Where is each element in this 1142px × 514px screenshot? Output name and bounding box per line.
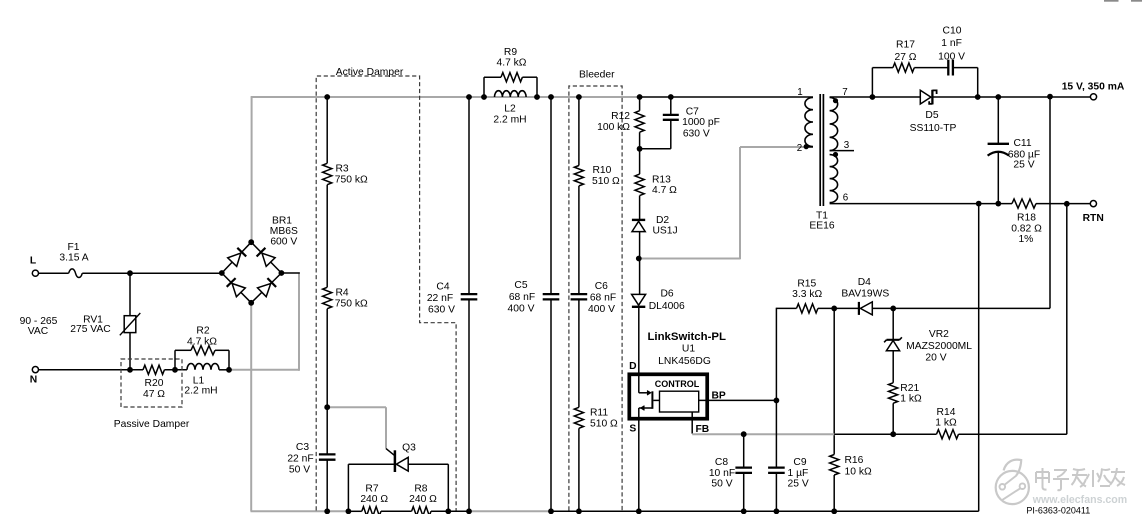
top rail gray bbox=[251, 96, 640, 98]
wire FB stub bbox=[692, 412, 709, 435]
svg-text:LNK456DG: LNK456DG bbox=[658, 356, 711, 367]
svg-text:C3: C3 bbox=[296, 442, 309, 453]
node D2/D6/pin2 bbox=[636, 256, 642, 262]
node C4 top bbox=[466, 94, 472, 100]
wire Q3 loop left bbox=[347, 464, 349, 511]
svg-text:R16: R16 bbox=[845, 455, 864, 466]
svg-text:240 Ω: 240 Ω bbox=[360, 494, 388, 505]
varistor RV1 bbox=[70, 273, 140, 370]
svg-text:C7: C7 bbox=[686, 107, 699, 118]
svg-text:3: 3 bbox=[844, 140, 850, 151]
diode D5 bbox=[910, 90, 957, 134]
svg-text:10 nF: 10 nF bbox=[709, 468, 735, 479]
resistor R14 bbox=[935, 407, 958, 439]
wire node to fb tap bbox=[893, 307, 1050, 309]
label Bleeder bbox=[579, 69, 615, 80]
node C9 bottom bbox=[774, 508, 780, 514]
resistor R17 bbox=[893, 40, 917, 73]
wire sec return down bbox=[978, 204, 980, 512]
wire R16 to rail bbox=[833, 475, 835, 511]
svg-text:1%: 1% bbox=[1018, 234, 1033, 245]
svg-text:1 µF: 1 µF bbox=[788, 468, 809, 479]
svg-text:100 V: 100 V bbox=[938, 51, 965, 62]
svg-text:275 VAC: 275 VAC bbox=[70, 324, 111, 335]
node Q3 right bbox=[445, 508, 451, 514]
node C8 bottom bbox=[741, 508, 747, 514]
svg-text:1 kΩ: 1 kΩ bbox=[900, 394, 922, 405]
diode D2 bbox=[632, 215, 678, 237]
svg-text:Passive Damper: Passive Damper bbox=[114, 419, 190, 430]
wire pin7 to D5 bbox=[830, 96, 921, 98]
svg-text:R3: R3 bbox=[336, 164, 349, 175]
resistor R10 bbox=[574, 165, 620, 187]
bottom rail gray 1 bbox=[251, 510, 349, 512]
terminal L bbox=[30, 256, 39, 277]
svg-text:R14: R14 bbox=[937, 407, 956, 418]
resistor R11 bbox=[574, 407, 618, 429]
svg-text:VAC: VAC bbox=[28, 326, 49, 337]
wire R18 to RTN bbox=[1036, 203, 1090, 205]
node R21/FB bbox=[890, 431, 896, 437]
svg-text:RTN: RTN bbox=[1083, 213, 1104, 224]
terminal N bbox=[30, 367, 39, 386]
svg-text:PI-6363-020411: PI-6363-020411 bbox=[1026, 506, 1090, 514]
node R15/D4 bbox=[831, 306, 837, 312]
label S pin bbox=[629, 424, 636, 435]
capacitor C10 bbox=[938, 25, 965, 75]
node S bottom bbox=[636, 508, 642, 514]
wire bridge E stub bbox=[281, 272, 299, 274]
resistor R9 bypass bbox=[484, 47, 537, 97]
svg-text:CONTROL: CONTROL bbox=[655, 379, 700, 389]
bridge nodes bbox=[219, 239, 284, 305]
svg-text:4.7 kΩ: 4.7 kΩ bbox=[187, 337, 217, 348]
svg-text:Active Damper: Active Damper bbox=[336, 67, 404, 78]
node fb tap top bbox=[1047, 94, 1053, 100]
capacitor C6 bbox=[571, 281, 617, 315]
wire damper to bridge E bbox=[219, 272, 299, 370]
svg-text:R9: R9 bbox=[504, 47, 517, 58]
watermark logo bbox=[996, 460, 1029, 504]
svg-text:F1: F1 bbox=[67, 242, 79, 253]
resistor R12 bbox=[597, 111, 644, 133]
capacitor C9 bbox=[768, 400, 809, 511]
resistor R7 bbox=[360, 483, 388, 514]
top rail black bbox=[640, 96, 813, 98]
label PI number bbox=[1026, 506, 1090, 514]
svg-text:C4: C4 bbox=[436, 282, 449, 293]
node C5 bottom bbox=[548, 508, 554, 514]
svg-text:C8: C8 bbox=[715, 457, 728, 468]
node R12 top bbox=[637, 94, 643, 100]
svg-text:0.82 Ω: 0.82 Ω bbox=[1011, 223, 1042, 234]
inductor L1 bbox=[184, 363, 219, 396]
svg-text:R17: R17 bbox=[896, 40, 915, 51]
wire R3 to R4 bbox=[326, 185, 328, 288]
label Active Damper bbox=[336, 67, 404, 78]
node C5 top bbox=[548, 94, 554, 100]
wire R11 to rail bbox=[578, 428, 580, 511]
label BR1 bbox=[270, 216, 298, 248]
resistor R4 bbox=[323, 287, 368, 309]
node C11 top bbox=[995, 94, 1001, 100]
svg-text:3.3 kΩ: 3.3 kΩ bbox=[792, 289, 822, 300]
bottom rail black 2 bbox=[551, 510, 979, 512]
wire C6 to R11 bbox=[578, 299, 580, 407]
svg-text:27 Ω: 27 Ω bbox=[894, 52, 916, 63]
diode D4 bbox=[841, 277, 889, 315]
capacitor C5 bbox=[508, 97, 560, 511]
snubber loop bbox=[872, 68, 977, 97]
label pin2 bbox=[797, 143, 802, 154]
node C8 top bbox=[741, 431, 747, 437]
svg-text:2: 2 bbox=[797, 143, 802, 154]
svg-text:400 V: 400 V bbox=[588, 304, 615, 315]
label pin6 bbox=[843, 193, 849, 204]
svg-text:C9: C9 bbox=[793, 457, 806, 468]
core bbox=[820, 94, 823, 206]
resistor R2 bypass bbox=[175, 326, 229, 370]
wire FB row black bbox=[834, 433, 936, 435]
wire L to fuse bbox=[38, 272, 68, 274]
capacitor C8 bbox=[709, 434, 752, 511]
svg-text:2.2 mH: 2.2 mH bbox=[493, 115, 526, 126]
svg-text:R20: R20 bbox=[145, 378, 164, 389]
svg-text:VR2: VR2 bbox=[929, 329, 949, 340]
wire clamp to pin2 gray bbox=[640, 147, 804, 259]
svg-text:630 V: 630 V bbox=[683, 129, 710, 140]
svg-text:R12: R12 bbox=[611, 111, 630, 122]
svg-text:15 V, 350 mA: 15 V, 350 mA bbox=[1062, 82, 1125, 93]
wire fb row left bbox=[776, 308, 796, 401]
wire pin2 stub bbox=[804, 146, 813, 148]
phase dot primary bbox=[804, 144, 809, 149]
bleeder box bbox=[569, 86, 622, 511]
node BP/C9 bbox=[774, 398, 780, 404]
svg-text:4.7 kΩ: 4.7 kΩ bbox=[496, 58, 526, 69]
wire R13 to D2 bbox=[639, 196, 641, 219]
wire fuse to node bbox=[82, 272, 130, 274]
top edge marks bbox=[1104, 0, 1142, 2]
svg-text:BAV19WS: BAV19WS bbox=[841, 289, 889, 300]
svg-text:N: N bbox=[30, 375, 37, 386]
svg-text:68 nF: 68 nF bbox=[509, 292, 535, 303]
wire fb tap down bbox=[1049, 97, 1051, 309]
terminal 15V bbox=[1062, 82, 1125, 100]
svg-text:R7: R7 bbox=[365, 483, 378, 494]
node sec return bbox=[976, 201, 982, 207]
resistor R13 bbox=[635, 174, 677, 196]
svg-text:1 nF: 1 nF bbox=[941, 38, 962, 49]
svg-text:R21: R21 bbox=[900, 383, 919, 394]
wire R4 to C3 bbox=[326, 309, 328, 455]
watermark brand text bbox=[1036, 468, 1125, 490]
wire Q3 right bbox=[408, 463, 448, 465]
node R2 left bbox=[172, 367, 178, 373]
capacitor C11 bbox=[988, 97, 1041, 204]
phase dot sec upper bbox=[833, 98, 838, 103]
svg-text:U1: U1 bbox=[682, 344, 695, 355]
svg-text:22 nF: 22 nF bbox=[427, 293, 453, 304]
wire R21 to FB row bbox=[892, 403, 894, 434]
svg-text:EE16: EE16 bbox=[809, 221, 834, 232]
svg-text:400 V: 400 V bbox=[508, 304, 535, 315]
label pin7 bbox=[842, 87, 847, 98]
svg-text:C10: C10 bbox=[943, 25, 962, 36]
svg-text:1: 1 bbox=[797, 87, 802, 98]
svg-text:BR1: BR1 bbox=[272, 216, 292, 227]
svg-text:630 V: 630 V bbox=[428, 304, 455, 315]
svg-text:C6: C6 bbox=[595, 281, 608, 292]
wire R15 to D4 bbox=[818, 307, 859, 309]
wire node to R13 bbox=[639, 149, 641, 174]
svg-text:10 kΩ: 10 kΩ bbox=[845, 466, 872, 477]
node bleeder top bbox=[576, 94, 582, 100]
wire R12 to node bbox=[639, 132, 641, 149]
terminal RTN bbox=[1083, 201, 1104, 224]
svg-text:R2: R2 bbox=[196, 326, 209, 337]
node gate tap bbox=[324, 404, 330, 410]
label T1 bbox=[809, 211, 834, 232]
wire RTN branch down bbox=[1066, 204, 1068, 434]
svg-text:LinkSwitch-PL: LinkSwitch-PL bbox=[647, 331, 726, 343]
wire Q3 loop right bbox=[447, 464, 449, 511]
svg-text:D4: D4 bbox=[858, 277, 871, 288]
svg-text:22 nF: 22 nF bbox=[287, 453, 313, 464]
svg-text:510 Ω: 510 Ω bbox=[592, 176, 620, 187]
wire rail to R3 bbox=[326, 97, 328, 163]
wire pin3 tap bbox=[830, 150, 854, 152]
inductor L2 bbox=[493, 91, 526, 126]
node bleeder bottom bbox=[576, 508, 582, 514]
svg-text:R8: R8 bbox=[414, 483, 427, 494]
thyristor Q3 bbox=[395, 443, 416, 473]
svg-text:6: 6 bbox=[843, 193, 849, 204]
bridge diode W-N bbox=[228, 248, 247, 267]
capacitor C7 bbox=[640, 97, 720, 149]
svg-text:50 V: 50 V bbox=[711, 479, 732, 490]
U1 box bbox=[629, 374, 707, 418]
wire rail to R10 bbox=[578, 97, 580, 166]
node C3 bottom bbox=[324, 508, 330, 514]
label pin3 bbox=[844, 140, 850, 151]
svg-text:www.elecfans.com: www.elecfans.com bbox=[1032, 494, 1127, 506]
wire rail to R12 bbox=[639, 97, 641, 111]
wire R16 branch bbox=[833, 308, 835, 454]
wire Q3 left bbox=[348, 463, 394, 465]
bottom rail gray 2 bbox=[469, 510, 552, 512]
passive damper box bbox=[121, 359, 182, 407]
svg-text:R4: R4 bbox=[336, 288, 349, 299]
svg-text:510 Ω: 510 Ω bbox=[590, 418, 618, 429]
svg-text:100 kΩ: 100 kΩ bbox=[597, 122, 630, 133]
U1 control block bbox=[653, 379, 699, 412]
label pin1 bbox=[797, 87, 802, 98]
svg-text:R18: R18 bbox=[1017, 212, 1036, 223]
node D4/VR2 bbox=[890, 306, 896, 312]
wire D6 to U1 D bbox=[638, 307, 640, 373]
svg-text:2.2 mH: 2.2 mH bbox=[184, 386, 217, 397]
resistor R8 bbox=[409, 483, 437, 514]
svg-text:750 kΩ: 750 kΩ bbox=[335, 174, 368, 185]
wire gate kink bbox=[386, 449, 394, 456]
secondary winding lower bbox=[830, 155, 838, 203]
U1 mosfet bbox=[639, 373, 653, 421]
wire node to D6 bbox=[639, 259, 641, 295]
node C7 top bbox=[668, 94, 674, 100]
svg-text:MB6S: MB6S bbox=[270, 226, 298, 237]
bridge diode E-N bbox=[257, 248, 276, 267]
wire BP bbox=[699, 391, 777, 402]
watermark url bbox=[1032, 494, 1127, 506]
wire D2 to node bbox=[639, 232, 641, 259]
node RTN branch bbox=[1064, 201, 1070, 207]
node snubber right bbox=[975, 94, 981, 100]
secondary winding upper bbox=[830, 97, 838, 150]
wire D5 to output bbox=[934, 96, 1091, 98]
node RV1/N bbox=[127, 367, 133, 373]
node R9 left bbox=[481, 94, 487, 100]
svg-text:750 kΩ: 750 kΩ bbox=[335, 298, 368, 309]
node R12/C7 bbox=[637, 146, 643, 152]
bridge BR1 frame bbox=[222, 242, 282, 303]
capacitor C4 bbox=[427, 97, 477, 511]
wire pin6 row bbox=[830, 203, 1012, 205]
bottom rail black R7R8 seg bbox=[348, 510, 468, 512]
svg-text:SS110-TP: SS110-TP bbox=[910, 123, 957, 134]
wire N to R20 bbox=[38, 369, 143, 371]
wire R14 to corner bbox=[959, 433, 1067, 435]
wire VR2 to R21 bbox=[892, 351, 894, 383]
node R16 bottom bbox=[831, 508, 837, 514]
zener VR2 bbox=[884, 308, 972, 363]
svg-text:47 Ω: 47 Ω bbox=[143, 389, 165, 400]
phase dot sec lower bbox=[833, 152, 838, 157]
svg-text:D2: D2 bbox=[656, 215, 669, 226]
svg-text:L2: L2 bbox=[504, 104, 516, 115]
wire FB row gray bbox=[692, 433, 835, 435]
svg-text:1 kΩ: 1 kΩ bbox=[935, 418, 957, 429]
resistor R20 bbox=[143, 365, 165, 400]
bridge diode S-E bbox=[258, 278, 277, 297]
wire R10 to C6 bbox=[578, 186, 580, 294]
node C4 bottom bbox=[466, 508, 472, 514]
diode D6 bbox=[632, 289, 685, 312]
svg-text:50 V: 50 V bbox=[289, 465, 310, 476]
svg-text:D5: D5 bbox=[925, 110, 938, 121]
svg-text:BP: BP bbox=[712, 391, 726, 402]
svg-text:D: D bbox=[629, 361, 636, 372]
svg-text:Q3: Q3 bbox=[402, 443, 416, 454]
wire D4 to node bbox=[872, 307, 893, 309]
label LinkSwitch-PL bbox=[647, 331, 726, 367]
fuse F1 bbox=[59, 242, 88, 278]
node C11 bottom bbox=[995, 201, 1001, 207]
wire R20 to L1 bbox=[164, 369, 187, 371]
node R9 right bbox=[534, 94, 540, 100]
capacitor C3 bbox=[287, 442, 335, 511]
label D pin bbox=[629, 361, 636, 372]
node Q3 left bbox=[346, 508, 352, 514]
svg-text:240 Ω: 240 Ω bbox=[409, 494, 437, 505]
wire gate gray bbox=[327, 407, 386, 448]
primary winding bbox=[805, 97, 813, 146]
svg-text:R10: R10 bbox=[593, 165, 612, 176]
resistor R3 bbox=[323, 163, 368, 185]
svg-text:US1J: US1J bbox=[653, 226, 678, 237]
svg-text:D6: D6 bbox=[661, 289, 674, 300]
svg-text:4.7 Ω: 4.7 Ω bbox=[652, 185, 677, 196]
wire node to bridge W bbox=[130, 272, 222, 274]
svg-text:R13: R13 bbox=[652, 174, 671, 185]
svg-text:25 V: 25 V bbox=[788, 479, 809, 490]
label input voltage bbox=[20, 316, 58, 337]
wire bridge S to bottom rail bbox=[250, 303, 252, 512]
resistor R18 bbox=[1011, 199, 1042, 245]
svg-text:1000 pF: 1000 pF bbox=[682, 117, 720, 128]
wire S to rail bbox=[638, 419, 640, 512]
resistor R16 bbox=[830, 455, 872, 478]
node snubber left bbox=[870, 94, 876, 100]
node F1/RV1 bbox=[127, 270, 133, 276]
svg-text:C11: C11 bbox=[1013, 138, 1031, 149]
bridge diode S-W bbox=[227, 278, 246, 297]
svg-text:C5: C5 bbox=[514, 280, 527, 291]
node L1/R2 right bbox=[226, 367, 232, 373]
svg-text:Bleeder: Bleeder bbox=[579, 69, 615, 80]
svg-text:25 V: 25 V bbox=[1013, 159, 1034, 170]
svg-text:DL4006: DL4006 bbox=[649, 301, 685, 312]
svg-text:S: S bbox=[629, 424, 636, 435]
svg-text:R11: R11 bbox=[590, 408, 608, 419]
wire bridge N to top rail bbox=[251, 96, 253, 242]
active damper box bbox=[316, 76, 456, 511]
svg-text:68 nF: 68 nF bbox=[590, 293, 616, 304]
svg-text:L: L bbox=[30, 256, 36, 267]
svg-text:20 V: 20 V bbox=[925, 352, 946, 363]
svg-text:R15: R15 bbox=[797, 278, 816, 289]
svg-text:3.15 A: 3.15 A bbox=[59, 253, 88, 264]
resistor R15 bbox=[792, 278, 822, 313]
label Passive Damper bbox=[114, 419, 190, 430]
node R3 top bbox=[324, 94, 330, 100]
resistor R21 bbox=[889, 383, 923, 405]
svg-text:MAZS2000ML: MAZS2000ML bbox=[906, 341, 972, 352]
svg-text:600 V: 600 V bbox=[270, 237, 297, 248]
